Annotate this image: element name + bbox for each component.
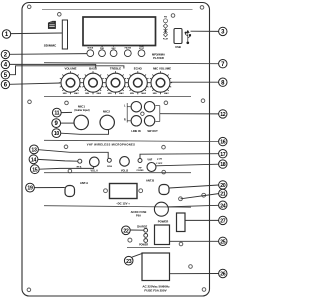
svg-text:F6A: F6A [136,213,141,217]
svg-text:R: R [124,119,126,122]
svg-text:▲ON: ▲ON [157,158,163,161]
svg-text:PLAYER: PLAYER [153,56,164,60]
svg-text:MAX: MAX [164,92,169,95]
svg-text:POWER: POWER [139,244,148,247]
svg-text:17: 17 [220,152,226,158]
screw top-left [27,5,31,9]
leader 26 [170,273,219,275]
knob MIC VOLUME [149,67,172,96]
divider + leader 16 [44,140,218,141]
svg-text:ECHO: ECHO [134,67,143,71]
screw near slot [58,13,62,17]
svg-text:23: 23 [126,259,132,265]
svg-text:FUSE F5A 250V: FUSE F5A 250V [144,289,166,293]
SD card icon [48,21,55,28]
USB port [174,29,182,44]
knob TREBLE [104,67,127,96]
ANT.A connector [65,186,75,197]
svg-text:MIN: MIN [85,93,89,95]
svg-text:15: 15 [32,167,38,173]
svg-text:VOL.B: VOL.B [121,170,129,173]
svg-text:27: 27 [220,219,226,225]
knob VOL.A [90,157,100,167]
VHF POWER switch [147,163,156,172]
POWER switch [155,225,170,245]
svg-text:16: 16 [220,140,226,146]
charge LEDs [144,228,148,232]
leader 9 [61,122,74,124]
svg-text:MIC2: MIC2 [103,110,110,114]
svg-text:VHF: VHF [147,158,152,161]
leader 23 [132,253,144,257]
leader 13 [38,150,108,159]
svg-text:USB: USB [175,45,181,49]
leader 4 [10,64,96,68]
svg-text:AC/DC FUSE: AC/DC FUSE [131,210,147,214]
partial line power [127,246,170,248]
svg-text:MIN: MIN [63,93,67,95]
svg-text:–DC 12V +: –DC 12V + [116,201,130,205]
screws bottom [27,288,31,292]
svg-text:12: 12 [220,112,226,118]
svg-text:18: 18 [220,162,226,168]
panel outline [22,3,210,297]
rect 27 [177,213,186,232]
svg-text:PAUSE: PAUSE [125,47,132,50]
AC inlet box [142,253,170,281]
leader 10 [61,130,109,135]
svg-text:MAX: MAX [119,92,124,95]
leader 3 [191,30,219,32]
callout circles [1,27,227,277]
ON OFF labels [156,158,163,165]
svg-text:ANT.B: ANT.B [146,179,154,183]
leader 15 [39,167,93,169]
MIC2 jack [100,115,114,129]
divider under MP3 + leader 7 [44,63,218,64]
divider below ANT [44,206,191,208]
fuse holder [154,202,168,216]
svg-text:MP3/WMA: MP3/WMA [152,53,165,57]
card slot [62,20,67,49]
inner top line [42,9,193,11]
svg-text:13: 13 [31,148,37,154]
leader 25 [170,240,219,242]
USB symbol [185,31,191,44]
divider below VHF [44,172,191,174]
svg-text:LINE IN: LINE IN [131,129,140,133]
svg-text:(Guitar Input): (Guitar Input) [74,109,89,112]
leader 5 [10,66,124,75]
svg-text:SW OUT: SW OUT [147,129,158,133]
screw left vhf bottom [68,169,72,173]
svg-text:ANT.A: ANT.A [80,181,88,185]
svg-text:14: 14 [31,157,37,163]
RF.A LED [78,159,82,163]
leader 8 [171,81,219,83]
screw top-right [200,6,204,10]
screws vhf row [64,145,68,149]
leader 21 [181,194,219,199]
svg-text:MIN: MIN [130,93,134,95]
svg-text:POWER: POWER [137,170,144,172]
leader 6 [10,83,61,84]
knob VOL.B [120,157,130,167]
svg-text:PLAY: PLAY [163,38,169,41]
svg-text:MIC1: MIC1 [78,104,85,108]
leader 20 [169,185,218,188]
DC 12V socket box [110,184,138,199]
svg-text:RF.B: RF.B [107,166,112,168]
svg-text:VHF WIRELESS MICROPHONES: VHF WIRELESS MICROPHONES [87,142,135,146]
leader 1 [11,32,63,35]
leader 19 [35,187,65,189]
divider below knobs [44,95,191,97]
svg-text:24: 24 [220,203,226,209]
knob ECHO [126,67,149,96]
svg-text:MODE: MODE [87,48,93,50]
knob VOLUME [59,67,82,96]
leader 18 [156,164,218,166]
leader 12 [160,113,219,115]
knob BASS [81,67,104,96]
screw above USB [171,14,175,18]
svg-text:▼OFF: ▼OFF [156,162,163,165]
svg-text:20: 20 [220,183,226,189]
svg-text:POWER: POWER [158,219,169,223]
indicator column [163,17,169,41]
svg-text:VOL.A: VOL.A [91,170,99,173]
svg-text:TREBLE: TREBLE [110,67,121,71]
leader 14 [38,159,78,161]
svg-text:21: 21 [220,192,226,198]
svg-text:VOLUME: VOLUME [65,67,77,71]
VHF power LED [138,159,142,163]
svg-text:MIN: MIN [153,93,157,95]
svg-text:MIC VOLUME: MIC VOLUME [153,67,171,71]
svg-text:19: 19 [27,186,33,192]
screw [162,170,166,174]
svg-text:MIN: MIN [108,93,112,95]
svg-text:STOP: STOP [139,48,145,50]
L R bracket left [127,103,130,123]
ANT.B connector [159,185,169,195]
svg-text:MAX: MAX [141,92,146,95]
leader 11 [61,111,72,113]
leader 17 [140,154,219,159]
screws ant row [179,197,183,201]
leader 24 [169,205,219,207]
screws mic row [28,100,32,104]
svg-text:10: 10 [54,131,60,137]
svg-text:26: 26 [220,272,226,278]
svg-text:FM: FM [164,17,167,19]
svg-text:SD/MMC: SD/MMC [44,43,57,47]
svg-text:MAX: MAX [74,92,79,95]
svg-text:11: 11 [54,111,59,117]
display U1 [83,17,156,46]
RF.B LED [107,158,111,162]
leader 27 [185,219,218,221]
svg-text:25: 25 [220,239,226,245]
right bracket [156,106,160,122]
MP3 buttons [87,50,145,57]
leader 22 [130,229,143,231]
screw [179,242,183,246]
RCA group LINE IN / SW OUT [131,102,155,127]
svg-text:22: 22 [123,228,129,234]
MIC1 jack [74,115,88,129]
leader 2 [10,53,87,56]
svg-text:MAX: MAX [97,92,102,95]
